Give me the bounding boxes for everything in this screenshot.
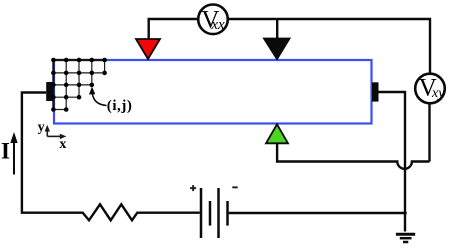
- svg-text:xy: xy: [431, 86, 445, 101]
- svg-text:I: I: [1, 139, 10, 164]
- svg-text:(i,j): (i,j): [107, 98, 133, 114]
- svg-text:y: y: [38, 120, 45, 135]
- svg-text:xx: xx: [210, 17, 225, 33]
- svg-text:x: x: [59, 137, 66, 152]
